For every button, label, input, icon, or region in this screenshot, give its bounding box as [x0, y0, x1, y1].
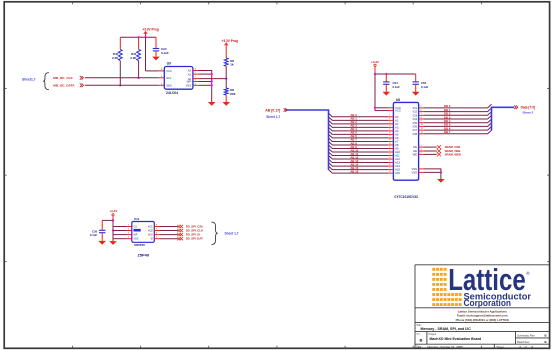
node R40/SDA junction: [119, 84, 121, 86]
wire U9 A2: [193, 71, 212, 103]
svg-text:1k: 1k: [230, 63, 234, 67]
power +3.3V Prog (U9 rail): [142, 28, 159, 38]
wire SD_SPI_CLK: [154, 228, 203, 232]
wire SCL net: [85, 77, 165, 79]
ground under C24: [152, 57, 160, 61]
svg-text:®: ®: [526, 270, 530, 276]
svg-text:IO3: IO3: [413, 113, 418, 117]
svg-text:Phone (503) 268-8001 or (800): Phone (503) 268-8001 or (800) LATTICE: [456, 318, 510, 322]
node A1 tie: [211, 73, 213, 75]
svg-text:U6: U6: [396, 98, 400, 102]
wire SD_SPI_CS0: [154, 224, 203, 228]
node rail pin2: [112, 229, 114, 231]
svg-text:U9: U9: [167, 62, 171, 66]
svg-text:Size: Size: [416, 334, 421, 336]
wire AB9: [329, 145, 399, 151]
wire AB2: [329, 120, 399, 126]
svg-text:Corporation: Corporation: [464, 298, 512, 308]
svg-text:IO2: IO2: [413, 110, 418, 114]
wire U9 VSS: [193, 84, 212, 86]
op IC U9 24LC04: [161, 62, 197, 95]
svg-text:IO5: IO5: [413, 121, 418, 125]
wire AB11: [329, 152, 401, 158]
svg-text:Board Rev:: Board Rev:: [517, 340, 530, 344]
svg-text:VCC: VCC: [166, 69, 172, 73]
capacitor C65: [413, 74, 429, 92]
svg-text:HLD: HLD: [148, 230, 153, 233]
wire DB6: [413, 126, 492, 132]
wire AB5: [329, 131, 399, 137]
ground under C20: [98, 241, 106, 245]
svg-text:VSS: VSS: [411, 171, 417, 175]
Lattice logo wordmark: [448, 263, 531, 308]
capacitor C64: [383, 74, 400, 92]
svg-text:+3.3V: +3.3V: [371, 60, 380, 64]
node cap branch: [112, 219, 114, 221]
svg-text:AB [0:17]: AB [0:17]: [265, 108, 280, 112]
wire U11 power rail down: [112, 220, 114, 241]
wire SD_SPI_SI: [154, 232, 200, 236]
project row: [429, 333, 482, 341]
svg-text:IO1: IO1: [413, 106, 418, 110]
wire AB10: [329, 148, 401, 154]
wire SD_SPI_DAT: [154, 237, 203, 241]
capacitor C20: [90, 230, 106, 241]
svg-text:11: 11: [421, 128, 424, 130]
svg-text:+3.3V Prog: +3.3V Prog: [222, 39, 239, 43]
svg-text:Sheet: Sheet: [497, 345, 505, 349]
wire SDA net: [85, 84, 165, 86]
node rail/power: [374, 73, 376, 75]
wire AB12: [329, 155, 401, 161]
svg-text:7: 7: [421, 113, 423, 115]
power +3.3V (U11): [109, 209, 117, 220]
svg-text:A2: A2: [395, 122, 399, 126]
svg-text:0.1uF: 0.1uF: [393, 85, 401, 89]
svg-text:MB_I2C_CLK: MB_I2C_CLK: [53, 76, 73, 80]
svg-text:SRAM_WEB: SRAM_WEB: [445, 152, 461, 156]
power +3.3V (U6): [371, 60, 380, 74]
svg-text:WE: WE: [413, 153, 418, 157]
svg-text:Date:: Date:: [416, 346, 422, 349]
wire AB3: [329, 124, 399, 130]
wire DB1: [413, 108, 492, 114]
svg-text:25P40: 25P40: [138, 253, 150, 258]
svg-text:DNI: DNI: [230, 92, 235, 96]
svg-text:A9: A9: [395, 147, 399, 151]
svg-text:A8: A8: [395, 143, 399, 147]
svg-text:Data [7:0]: Data [7:0]: [521, 106, 536, 110]
svg-text:B: B: [544, 340, 546, 344]
svg-text:IO8: IO8: [413, 132, 418, 136]
svg-text:A2: A2: [188, 69, 192, 73]
svg-text:MachXO Mini Evaluation Board: MachXO Mini Evaluation Board: [430, 337, 482, 341]
ground under C64: [383, 92, 391, 96]
svg-text:MB_I2C_DATA: MB_I2C_DATA: [53, 84, 75, 88]
brace sheet group right: [212, 222, 218, 245]
svg-text:OE: OE: [413, 149, 417, 153]
port Data [7:0]: [514, 105, 535, 109]
wire VSS down: [440, 172, 442, 179]
svg-text:WP: WP: [134, 234, 138, 237]
wire DB3: [413, 115, 492, 121]
node junction R41 top: [137, 36, 139, 38]
svg-text:A11: A11: [395, 154, 400, 158]
svg-text:AB 16: AB 16: [350, 169, 358, 173]
wire U9 A0: [193, 78, 226, 80]
wire AB7: [329, 138, 399, 144]
svg-text:Schematic Rev:: Schematic Rev:: [517, 333, 535, 337]
title row: [416, 324, 471, 331]
node A0 divider junction: [225, 77, 227, 79]
ground under C65: [412, 92, 420, 96]
svg-text:DB 7: DB 7: [444, 130, 451, 134]
svg-text:IO4: IO4: [413, 117, 418, 121]
svg-text:A14: A14: [395, 164, 400, 168]
date row: [416, 345, 533, 349]
title block outline: [415, 265, 550, 349]
wire DB0: [413, 104, 492, 110]
resistor R8: [224, 79, 235, 102]
wire DB5: [413, 123, 492, 129]
bus AB[0:17]: [285, 110, 328, 170]
wire AB13: [329, 159, 401, 165]
svg-text:A1: A1: [188, 72, 192, 76]
svg-text:IO7: IO7: [413, 128, 418, 132]
wire U11 left pin 1: [113, 224, 132, 226]
wire AB6: [329, 134, 399, 140]
bus Data[7:0]: [492, 107, 515, 130]
ground U11 rail: [109, 241, 117, 245]
svg-text:of: of: [525, 345, 528, 349]
svg-text:A3: A3: [395, 125, 399, 129]
Lattice logo dot matrix: [432, 268, 461, 306]
svg-text:3: 3: [128, 232, 130, 234]
svg-text:1: 1: [389, 115, 391, 117]
node VSS join: [440, 171, 442, 173]
svg-text:A10: A10: [395, 150, 400, 154]
node VSS tie: [211, 84, 213, 86]
wire AB8: [329, 141, 399, 147]
wire U6 VSS2: [411, 171, 440, 175]
ground U6 VSS: [437, 179, 445, 183]
svg-text:A0: A0: [395, 115, 399, 119]
svg-text:VCC: VCC: [395, 109, 401, 113]
svg-text:U11: U11: [134, 217, 140, 221]
svg-text:A13: A13: [395, 161, 400, 165]
svg-text:0.1uF: 0.1uF: [421, 85, 429, 89]
wire DB7: [413, 130, 492, 136]
node VCC branch: [374, 107, 376, 109]
node WP tie: [211, 80, 213, 82]
svg-text:24LC04: 24LC04: [166, 91, 178, 95]
svg-text:A4: A4: [395, 129, 399, 133]
svg-text:VSS: VSS: [186, 83, 192, 87]
wire U9 A1: [193, 73, 212, 75]
svg-text:CY7C1019CV33: CY7C1019CV33: [394, 195, 418, 199]
svg-text:SI: SI: [151, 238, 154, 241]
svg-text:Sheet 1,7: Sheet 1,7: [225, 231, 239, 235]
ground under R8: [222, 102, 230, 106]
wire AB15: [329, 166, 401, 172]
IC U6 CY7C1019: [393, 98, 418, 199]
svg-text:M25P40: M25P40: [134, 243, 145, 247]
wire U6 decoupling rail: [375, 73, 416, 75]
svg-text:SDA: SDA: [166, 83, 172, 87]
svg-text:A6: A6: [395, 136, 399, 140]
wire U11 left pin 4: [113, 237, 132, 239]
svg-text:CS: CS: [134, 226, 138, 229]
size cell: [416, 334, 422, 343]
power +3.3V Prog (R6): [222, 39, 239, 58]
wire cap branch: [102, 220, 113, 230]
rev cells: [517, 333, 547, 344]
svg-text:A7: A7: [395, 140, 399, 144]
wire SRAM_OEB: [413, 149, 460, 153]
svg-text:WP: WP: [187, 80, 192, 84]
wire pullup rail: [120, 36, 156, 38]
svg-text:A5: A5: [395, 133, 399, 137]
port AB [0:17]: [265, 108, 287, 112]
svg-text:Sheet 1,7: Sheet 1,7: [266, 115, 280, 119]
wire AB16: [329, 169, 401, 175]
svg-text:SCK: SCK: [148, 234, 153, 237]
svg-text:VSS: VSS: [134, 238, 139, 241]
svg-text:A16: A16: [395, 171, 400, 175]
svg-text:6: 6: [156, 232, 158, 234]
wire AB0: [329, 113, 399, 119]
svg-text:IO6: IO6: [413, 125, 418, 129]
svg-text:CE: CE: [413, 145, 417, 149]
contact info lines: [456, 309, 510, 322]
svg-text:2.2K: 2.2K: [130, 56, 137, 60]
svg-text:2.2K: 2.2K: [112, 56, 119, 60]
port MB_I2C_DATA: [53, 83, 83, 87]
svg-text:Project:: Project:: [429, 333, 437, 336]
port MB_I2C_CLK: [53, 76, 83, 80]
svg-text:SD_SPI_DAT: SD_SPI_DAT: [186, 237, 203, 241]
wire AB4: [329, 127, 399, 133]
wire VCC drop to U6: [375, 74, 393, 111]
svg-text:0.1uF: 0.1uF: [90, 233, 98, 237]
resistor R6: [224, 58, 234, 79]
svg-text:Memory - SRAM, SPI, and I2C: Memory - SRAM, SPI, and I2C: [421, 327, 472, 331]
svg-text:0.1uF: 0.1uF: [161, 51, 169, 55]
node junction power drop: [144, 36, 146, 38]
svg-text:Sheet1,7: Sheet1,7: [22, 78, 36, 82]
IC U11 serial flash: [132, 217, 155, 258]
wire SRAM_WEB: [413, 152, 461, 156]
svg-text:A15: A15: [395, 168, 400, 172]
wire U11 left pin 3: [113, 232, 132, 234]
wire VCC feed U9: [146, 37, 165, 71]
capacitor C24: [153, 37, 169, 56]
svg-text:+3.3V: +3.3V: [109, 209, 117, 213]
svg-text:B: B: [420, 338, 423, 343]
svg-text:VCC: VCC: [148, 226, 153, 229]
svg-text:SCL: SCL: [166, 76, 172, 80]
svg-text:B: B: [544, 333, 546, 337]
wire DB2: [413, 112, 492, 118]
node R41/SCL junction: [137, 77, 139, 79]
wire U6 VSS1: [411, 167, 440, 172]
wire AB1: [329, 117, 399, 123]
wire U9 WP: [193, 81, 212, 83]
svg-text:Sheet 2: Sheet 2: [523, 110, 534, 114]
node rail/C64: [385, 73, 387, 75]
resistor R41: [130, 37, 140, 78]
svg-text:5: 5: [389, 129, 391, 131]
resistor R40: [112, 37, 122, 85]
ground U9 tie-down: [208, 102, 216, 106]
svg-text:9: 9: [421, 145, 423, 147]
svg-text:10: 10: [421, 124, 424, 126]
svg-text:5: 5: [421, 106, 423, 108]
brace sheet group left: [43, 73, 49, 90]
wire DB4: [413, 119, 492, 125]
svg-text:7: 7: [389, 167, 391, 169]
svg-text:+3.3V Prog: +3.3V Prog: [142, 28, 159, 32]
wire AB14: [329, 162, 401, 168]
svg-text:A12: A12: [395, 157, 400, 161]
svg-text:A1: A1: [395, 118, 399, 122]
wire U11 left pin 2: [113, 228, 132, 230]
svg-text:9: 9: [389, 143, 391, 145]
svg-text:Monday, October 31, 2005: Monday, October 31, 2005: [428, 345, 464, 349]
wire SRAM_CSB: [413, 145, 460, 149]
svg-text:VSS: VSS: [411, 167, 417, 171]
